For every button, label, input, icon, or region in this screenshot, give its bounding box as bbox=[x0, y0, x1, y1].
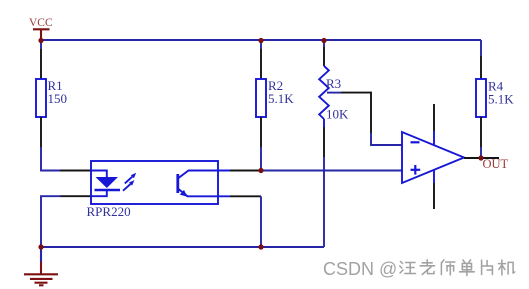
junction dot VCC / R1 bbox=[38, 38, 43, 43]
wire R4 bottom to output node bbox=[480, 147, 482, 158]
junction dot emitter / ground rail bbox=[258, 244, 263, 249]
power symbol VCC bbox=[33, 29, 50, 40]
pin wiper of R3 bbox=[327, 92, 371, 94]
svg-text:R3: R3 bbox=[326, 76, 341, 91]
pin op-amp output bbox=[464, 157, 481, 159]
junction dot R3 top bbox=[321, 38, 326, 43]
phototransistor inside optocoupler bbox=[178, 171, 230, 197]
junction dot R2 top bbox=[258, 38, 263, 43]
svg-text:150: 150 bbox=[48, 91, 68, 106]
svg-text:CSDN @: CSDN @ bbox=[323, 259, 397, 279]
pin op-amp V+ power bbox=[433, 104, 435, 145]
emission arrows bbox=[123, 173, 136, 191]
wire emitter down to ground rail bbox=[260, 196, 262, 247]
op-amp U1 bbox=[402, 132, 464, 183]
LED inside optocoupler bbox=[91, 171, 120, 197]
wire R2 bottom to collector node bbox=[260, 147, 262, 171]
junction dot collector node bbox=[258, 168, 263, 173]
wire cathode to ground rail bbox=[41, 196, 61, 247]
pin collector (optocoupler pin 4) bbox=[230, 170, 261, 172]
pin cathode (optocoupler pin 2) bbox=[60, 195, 91, 197]
junction dot ground / cathode bbox=[38, 244, 43, 249]
svg-text:RPR220: RPR220 bbox=[87, 204, 131, 219]
wire output to OUT bbox=[481, 157, 499, 159]
svg-text:OUT: OUT bbox=[483, 157, 509, 171]
svg-text:VCC: VCC bbox=[29, 17, 53, 29]
pin op-amp V- power bbox=[433, 170, 435, 209]
wire collector node to op-amp plus input bbox=[261, 170, 402, 172]
svg-text:5.1K: 5.1K bbox=[268, 91, 294, 106]
pin emitter (optocoupler pin 3) bbox=[230, 195, 261, 197]
junction dot output node bbox=[478, 155, 483, 160]
potentiometer R3 bbox=[319, 40, 349, 157]
optocoupler RPR220 box bbox=[91, 161, 218, 204]
ground symbol bbox=[24, 247, 58, 285]
resistor R2 bbox=[256, 40, 294, 147]
wire top power rail bbox=[41, 39, 481, 41]
wire wiper down to op-amp minus input bbox=[371, 92, 402, 145]
wire bottom ground rail bbox=[41, 246, 324, 248]
resistor R1 bbox=[36, 40, 67, 147]
wire R3 bottom to ground rail bbox=[323, 157, 325, 247]
svg-text:5.1K: 5.1K bbox=[488, 92, 514, 107]
svg-text:10K: 10K bbox=[326, 107, 349, 122]
wire R1 bottom to LED anode bbox=[41, 147, 61, 171]
pin anode (optocoupler pin 1) bbox=[60, 170, 91, 172]
watermark CSDN bbox=[323, 259, 399, 280]
resistor R4 bbox=[476, 40, 514, 147]
